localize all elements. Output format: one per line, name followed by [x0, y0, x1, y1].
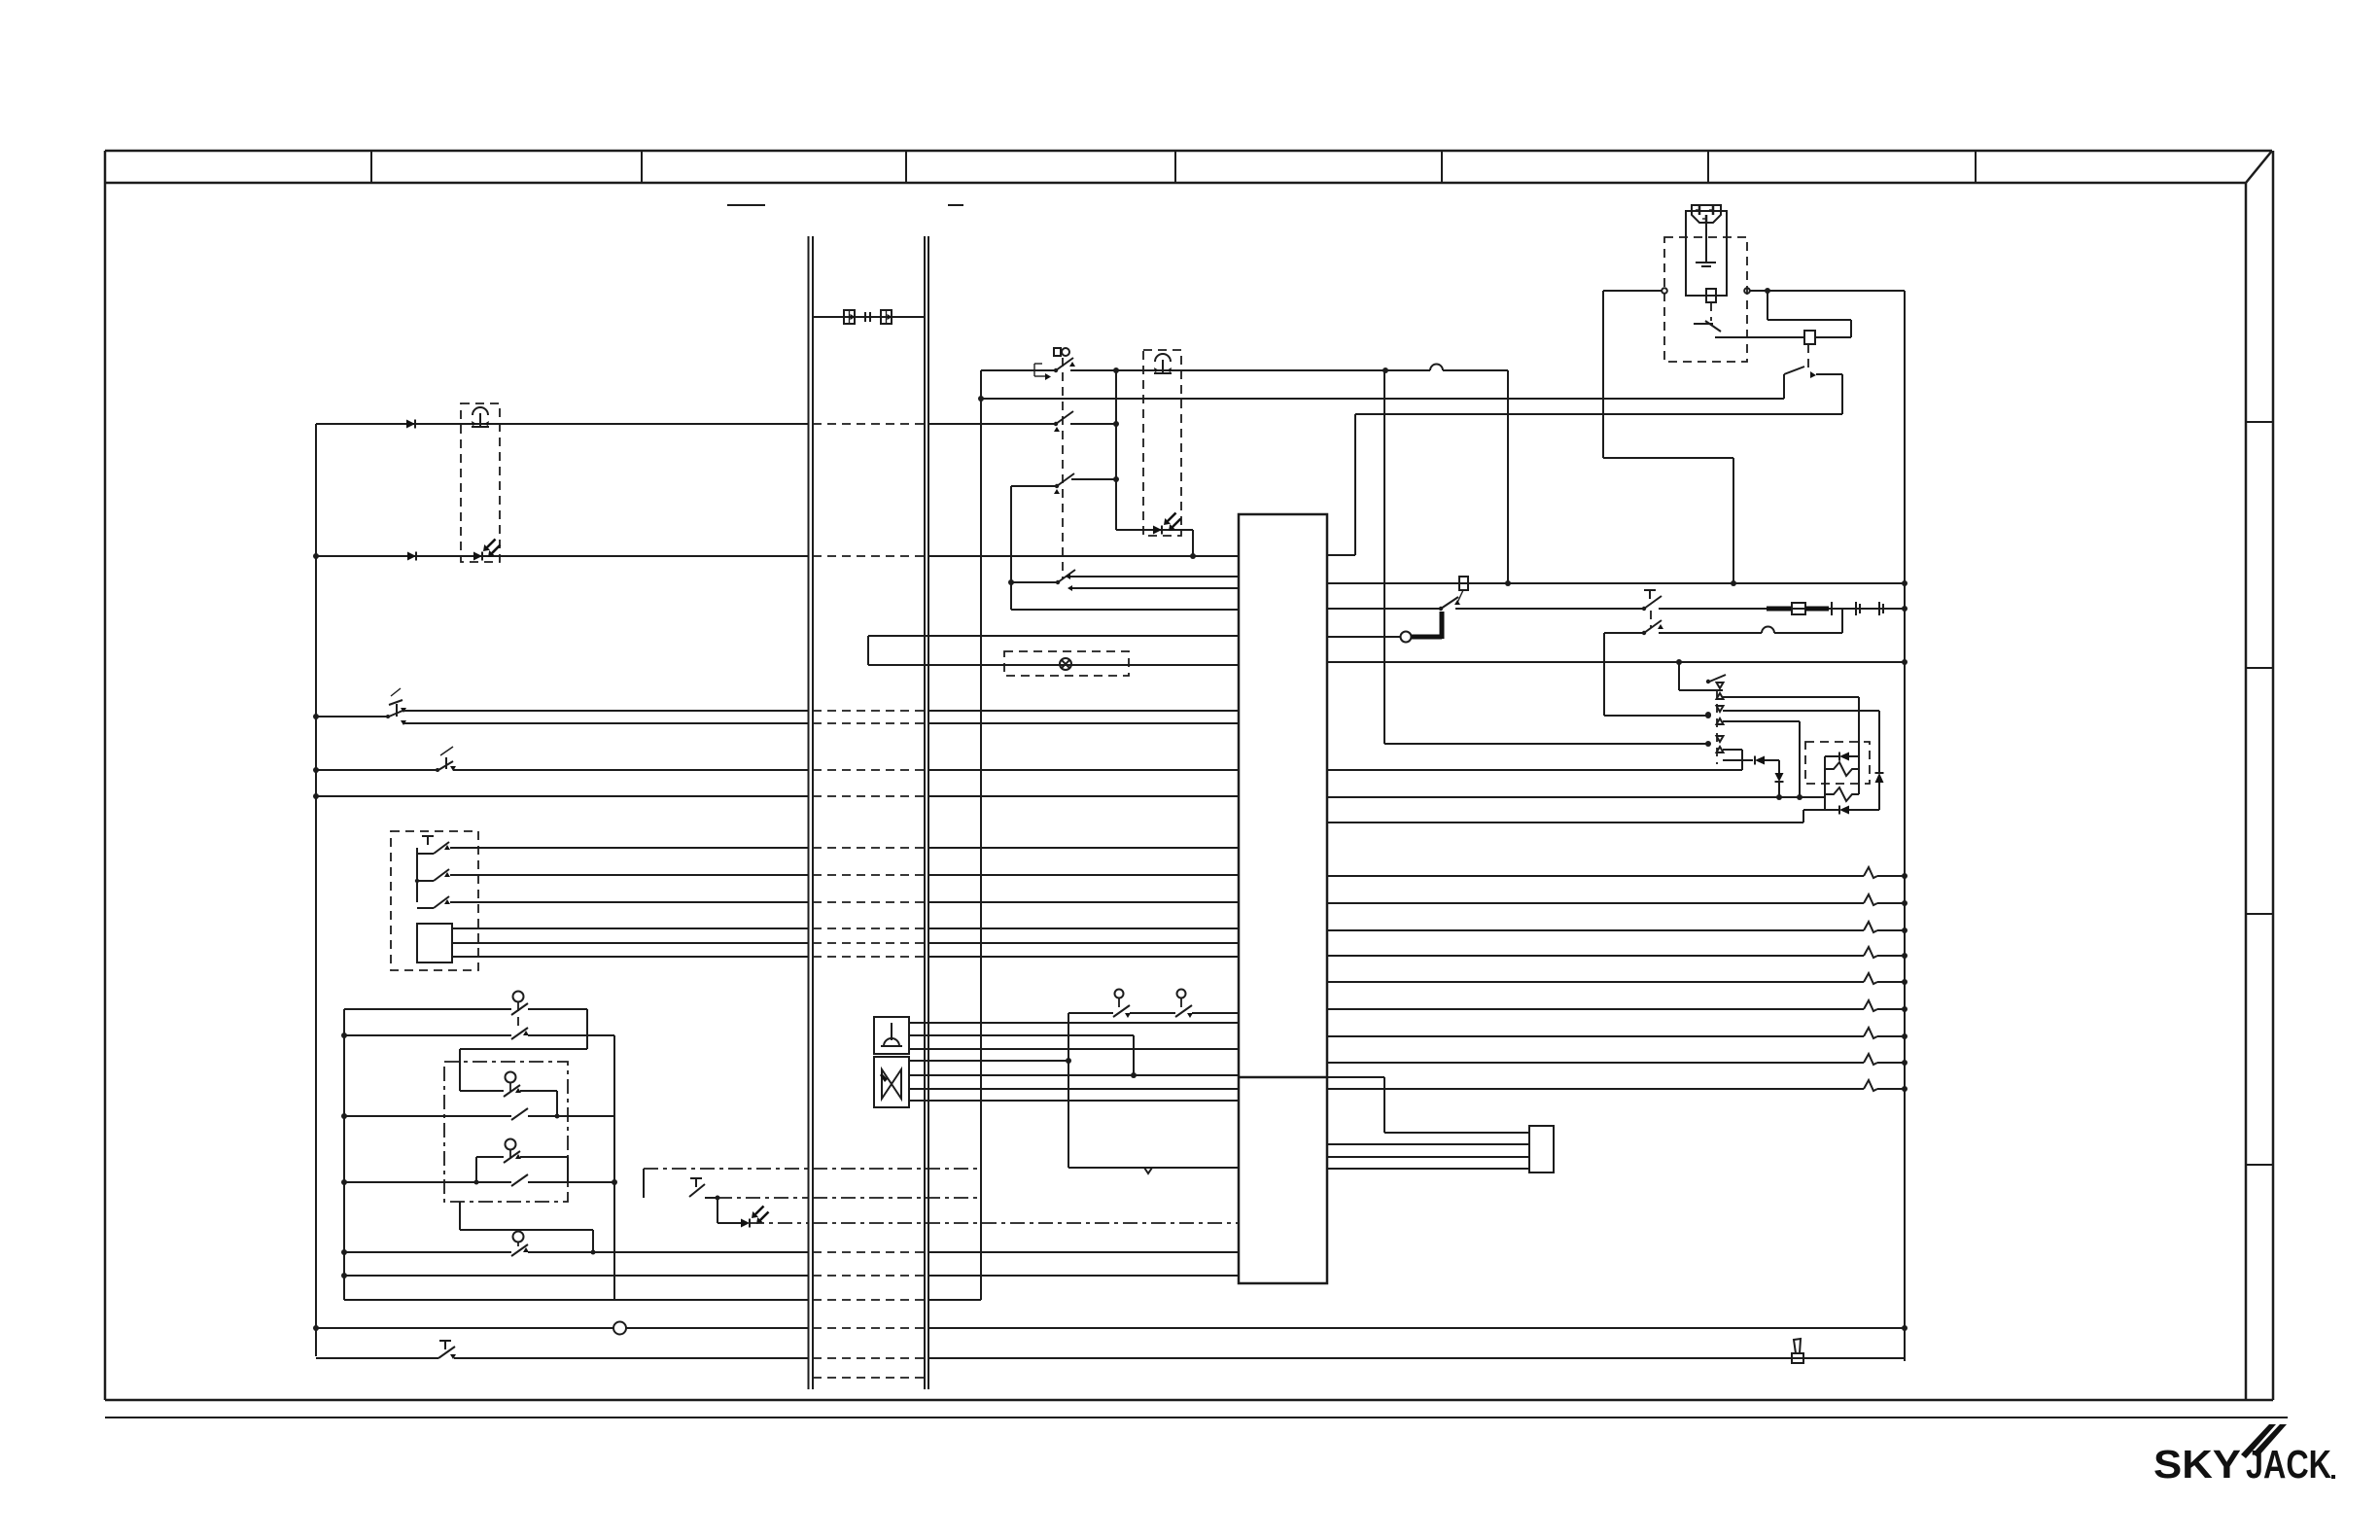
wire y=600 module to bus	[1327, 582, 1905, 584]
wire row y=731	[403, 710, 1239, 712]
wire row y=872	[450, 847, 1239, 849]
node on left rail at y737	[313, 714, 319, 719]
vertical x=1040	[1010, 486, 1012, 610]
wire row y=928	[450, 901, 1239, 903]
interlock switch S5 on wire626	[1439, 597, 1460, 611]
contact KS1b on wire436	[1054, 411, 1073, 432]
output wire y=1066	[1327, 1028, 1907, 1039]
fuse feed path x=1818	[1767, 291, 1851, 337]
ground symbol G1	[1696, 223, 1716, 266]
wire y=471	[1603, 457, 1733, 459]
level sensor common rail	[416, 848, 418, 902]
enclosure dash-dot box B6	[444, 1062, 568, 1202]
level sensor dashed box B2	[391, 831, 478, 970]
LED wire y=570	[316, 555, 1239, 557]
skyjack logo	[2153, 1424, 2335, 1487]
cluster wire y=1148	[341, 1108, 614, 1120]
wire y=626 module to bus	[1327, 606, 1907, 612]
connector plug P1	[844, 310, 856, 324]
LED DS3	[741, 1207, 769, 1228]
LED branch drop	[717, 1198, 718, 1223]
vertical x=1933 with up diode D7	[1875, 711, 1884, 810]
wire y=846 module to 1855	[1327, 810, 1803, 822]
vertical x=1792 coil drop	[1741, 750, 1743, 770]
cluster loop wire y=1122	[460, 1091, 557, 1116]
output wire y=957	[1327, 922, 1907, 933]
wire y=426	[1355, 413, 1842, 415]
valve box V2 (motor valve)	[874, 1057, 909, 1107]
cluster wire row y=1337	[344, 1299, 981, 1301]
module controller U1	[1239, 514, 1327, 1283]
connector mate ticks	[864, 312, 866, 322]
key switch actuation dashed line	[1062, 358, 1064, 579]
platform selector switch S2 common y=737	[316, 716, 388, 717]
valve wire y=1091	[909, 1060, 1068, 1062]
vertical x=1227	[1192, 530, 1194, 556]
valve wire y=1052	[909, 1022, 1239, 1024]
button PB6	[1175, 990, 1193, 1019]
contact KS1c	[1054, 473, 1074, 494]
wire y=654 to module	[868, 635, 1239, 637]
tilt sensor dashed box B3	[1143, 350, 1181, 536]
toggle TG1 on wire1397	[1792, 1339, 1803, 1363]
button PB4	[511, 1232, 529, 1257]
wire y=681 module to bus	[1327, 661, 1905, 663]
key switch KS1	[1054, 348, 1069, 356]
wire y=736 to ladder	[1604, 715, 1708, 717]
valve wire y=1106	[909, 1074, 1239, 1076]
contact LS1a	[417, 836, 450, 854]
dash-dot wire y=1202	[644, 1168, 981, 1170]
cluster wire y=1065	[341, 1032, 614, 1038]
connector plug P2	[881, 310, 892, 324]
ladder station B	[1717, 706, 1880, 797]
cluster bus x=632	[613, 1035, 615, 1300]
node K1/1148	[1113, 367, 1119, 373]
freewheel diode D3	[1723, 756, 1779, 765]
lamp fork vertical x=893	[867, 636, 869, 665]
wire436 to junction 1148	[1070, 423, 1116, 425]
output wire y=983	[1327, 947, 1907, 959]
wire y=493 to 1148	[1071, 478, 1116, 480]
dash-dot wire y=1258	[750, 1222, 1239, 1224]
contact KS1d y=599	[1008, 570, 1075, 585]
valve wire y=1132	[909, 1100, 1239, 1102]
terminal circle T3	[1401, 632, 1412, 643]
node on left rail at y819	[313, 793, 319, 799]
terminal circle T1	[1662, 288, 1667, 294]
diode D6 lower	[1803, 769, 1879, 815]
fusible link FL1 on wire626	[1767, 602, 1832, 615]
node on left rail at y570	[313, 553, 319, 559]
fuse F2	[1804, 331, 1815, 344]
cluster loop wire y=1190	[476, 1157, 568, 1182]
wire fuse to interlock	[1747, 336, 1804, 338]
connector ticks on wire626	[1856, 602, 1883, 615]
cluster loop wire y=1265	[460, 1202, 593, 1252]
battery wire y=299 right to bus	[1750, 290, 1905, 292]
LED branch wire y=545	[1116, 529, 1193, 531]
diode D2 on wire570	[407, 552, 416, 561]
vertical x=1099	[1067, 1013, 1069, 1168]
harness connector wire	[813, 316, 925, 318]
valve wire y=1079	[909, 1048, 1239, 1050]
border frame	[105, 151, 2288, 1417]
vertical x=1166	[1133, 1035, 1135, 1075]
wire K1 y=381	[981, 365, 1508, 371]
terminal circle T2	[1744, 288, 1750, 294]
switch S3 on row792	[316, 747, 456, 772]
lamp dashed box	[1004, 651, 1129, 676]
module section divider	[1239, 1076, 1327, 1079]
charger interlock actuation dashed	[1710, 302, 1712, 321]
vertical x=1551 K1 drop	[1507, 370, 1509, 583]
charger dashed box B4	[1664, 237, 1747, 362]
vertical x=1394	[1354, 414, 1356, 555]
charger fuse F1	[1706, 289, 1716, 302]
cluster wire y=1216	[341, 1174, 617, 1186]
wire y=500	[1011, 485, 1057, 487]
wire: tilt cutout line y=436	[316, 423, 1056, 425]
vertical x=1148	[1115, 370, 1117, 530]
button PB2	[504, 1072, 521, 1098]
wire y=792 module to 1792	[1327, 769, 1742, 771]
wire number dash labels	[727, 204, 765, 206]
output wire y=1010	[1327, 973, 1907, 985]
pendant cluster left rail x=354	[343, 1009, 345, 1300]
charger relay contact K1b	[1784, 367, 1842, 414]
wire y=571 into module	[1327, 554, 1355, 556]
harness left double-line	[809, 236, 814, 1389]
wire y=655 module to switch handle	[1327, 636, 1400, 638]
wire y=651	[1604, 609, 1842, 633]
wire row y=819	[316, 795, 1239, 797]
dash-dot wire y=1232	[717, 1197, 981, 1199]
main bus vertical x=1959	[1904, 291, 1906, 1361]
bottom wire y=1366	[316, 1325, 1907, 1331]
contact LS1b	[415, 869, 450, 883]
wire y=820 module to snubber	[1327, 794, 1825, 800]
ladder actuation dashed x=1766	[1716, 689, 1718, 764]
vertical x=1650	[1603, 633, 1605, 716]
output wire y=901	[1327, 867, 1907, 879]
wire y=684 to module	[868, 664, 1239, 666]
cluster wire row y=1288	[341, 1249, 1239, 1255]
relay ladder contact K2a	[1676, 659, 1726, 690]
LED DS2 in box B3	[1153, 513, 1181, 535]
output wire y=929	[1327, 894, 1907, 906]
vertical x=1783	[1732, 458, 1734, 583]
connector box J1	[1529, 1126, 1554, 1172]
wire y=605 to module	[1067, 585, 1239, 591]
tilt sensor symbol TS1	[472, 407, 489, 427]
relay actuation dashed x=1860	[1807, 344, 1809, 371]
output wire y=1120	[1327, 1080, 1907, 1092]
vertical rail V1 x=1009	[980, 370, 982, 1300]
resistor R1 in box	[1825, 756, 1859, 794]
module bottom-right bundle wire y=1104	[1327, 1077, 1529, 1169]
snubber dashed box B5	[1805, 742, 1870, 784]
bold switch handle	[1412, 612, 1442, 639]
node on left rail at y792	[313, 767, 319, 773]
node K1/1425	[1382, 367, 1388, 373]
harness bottom dashed rung y=1417	[813, 1377, 925, 1379]
node on left rail at y1366	[313, 1325, 319, 1331]
wire row y=955	[452, 927, 1239, 929]
vertical x=1830 with down diode D4	[1775, 760, 1784, 800]
ladder station A	[1717, 682, 1860, 756]
link F3 to switch blade	[1456, 590, 1463, 605]
marker triangle on 1201	[1144, 1168, 1152, 1173]
inline fuse F3 on wire600	[1459, 577, 1468, 590]
S6 link dashed	[1650, 611, 1652, 628]
battery wire y=299 left	[1603, 290, 1662, 292]
wire row y=900	[450, 874, 1239, 876]
wire y=765 from 1424	[1384, 743, 1708, 745]
key switch S6 pole1 on wire626	[1642, 590, 1662, 611]
wire y=627 to module	[1011, 609, 1239, 611]
ladder station C	[1717, 736, 1743, 752]
switch S8 on wire1397	[438, 1341, 456, 1359]
button PB5	[1113, 990, 1131, 1019]
resistor R2 lower	[1825, 787, 1859, 801]
LED DS1 in tilt box	[473, 540, 501, 561]
wire y=593 to module	[1066, 574, 1239, 579]
wire row y=979	[452, 956, 1239, 958]
cluster wire row y=1312	[341, 1273, 1239, 1278]
wire row y=792	[453, 769, 1239, 771]
wire y=1201 to module	[1068, 1167, 1239, 1169]
enable bar wire y=1042	[1068, 1012, 1239, 1014]
button PB3	[504, 1139, 521, 1164]
lamp L1	[1060, 658, 1071, 670]
terminal circle T4	[613, 1322, 626, 1335]
charger interlock contact K1a	[1694, 321, 1747, 337]
left rail wire (vertical bus x=325)	[315, 424, 317, 1356]
wire row y=965	[452, 942, 1239, 944]
contact LS1c	[417, 896, 450, 908]
button PB1	[511, 992, 529, 1040]
diode D1 on wire436	[406, 420, 415, 429]
contact S7	[689, 1178, 720, 1201]
node V1/K2	[978, 396, 984, 402]
bottom wire y=1397	[316, 1357, 1905, 1359]
valve wire y=1065	[909, 1034, 1134, 1036]
tilt sensor dashed box B1	[461, 403, 500, 562]
output wire y=1038	[1327, 1000, 1907, 1012]
diode D5 in box	[1825, 752, 1859, 761]
switch S2	[386, 688, 406, 725]
level module box LM1	[417, 924, 452, 962]
vertical x=1649	[1602, 291, 1604, 458]
vertical x=1424 from K1	[1383, 370, 1385, 744]
wire row y=744	[403, 722, 1239, 724]
wire K2 y=410	[981, 398, 1784, 400]
cluster loop wire y=1079	[460, 1049, 587, 1091]
charger plug PL1	[1692, 205, 1721, 223]
S6 pole2 on wire651	[1642, 620, 1663, 635]
cluster wire y=1038	[344, 1009, 587, 1049]
valve box V1 (alarm)	[874, 1017, 909, 1054]
lamp branch bracket x=662	[643, 1169, 645, 1198]
harness right double-line	[925, 236, 928, 1389]
output wire y=1093	[1327, 1054, 1907, 1066]
tilt sensor symbol TS2	[1154, 354, 1172, 373]
contact KS1a	[1034, 358, 1075, 380]
svg-text:SKY: SKY	[2153, 1442, 2241, 1487]
valve wire y=1120	[909, 1088, 1239, 1090]
battery charger outline BC1	[1686, 211, 1727, 296]
